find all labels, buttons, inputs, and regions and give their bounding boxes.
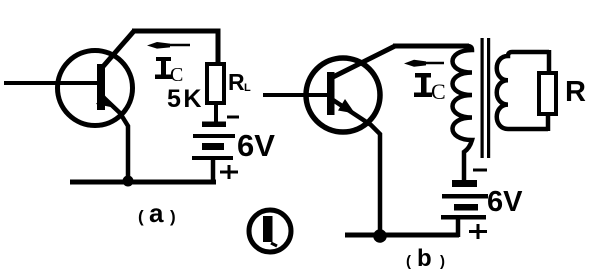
svg-text:(: ( bbox=[406, 253, 411, 270]
svg-text:R: R bbox=[228, 69, 245, 95]
wire bottom (b) bbox=[345, 233, 459, 238]
label IC (b) bbox=[421, 74, 427, 95]
resistor R (b) bbox=[539, 73, 556, 114]
wire base input (b) bbox=[263, 93, 330, 97]
junction dot (b) bbox=[373, 229, 387, 243]
wire resistor bottom (b) bbox=[546, 114, 551, 131]
transistor Q1 collector lead bbox=[100, 31, 134, 70]
wire base input (a) bbox=[4, 81, 100, 85]
transistor Q1 emitter lead bbox=[102, 96, 128, 181]
svg-text:(: ( bbox=[138, 207, 144, 226]
svg-text:C: C bbox=[170, 64, 183, 86]
battery B1 plate long 1 bbox=[193, 134, 235, 138]
svg-text:): ) bbox=[440, 253, 445, 270]
transistor Q2 circle bbox=[306, 58, 380, 132]
battery B1 minus label bbox=[227, 116, 239, 119]
junction dot (a) bbox=[123, 176, 134, 187]
svg-text:R: R bbox=[565, 76, 586, 108]
arrow IC (a) bbox=[160, 44, 190, 47]
transistor Q2 emitter arrow bbox=[338, 99, 355, 114]
wire battery to bottom (b) bbox=[456, 219, 461, 237]
transistor Q2 base bar bbox=[327, 72, 335, 115]
battery B2 minus label bbox=[473, 169, 487, 172]
svg-text:L: L bbox=[244, 82, 251, 94]
arrow IC (b) bbox=[420, 62, 444, 65]
svg-text:a: a bbox=[149, 198, 164, 228]
transistor Q2 collector lead bbox=[331, 46, 395, 78]
svg-text:b: b bbox=[417, 245, 432, 272]
battery B2 plate long 1 bbox=[442, 194, 488, 199]
wire bottom (a) bbox=[70, 180, 216, 185]
transistor Q1 circle bbox=[58, 51, 133, 126]
battery B2 plate short 1 bbox=[452, 180, 477, 187]
battery B1 plus label bbox=[220, 171, 238, 174]
battery B2 plate short 2 bbox=[454, 204, 478, 211]
label IC (a) bbox=[161, 58, 166, 77]
svg-text:6V: 6V bbox=[487, 186, 523, 218]
transistor Q1 emitter arrow bbox=[96, 94, 113, 108]
transistor Q1 base bar bbox=[97, 64, 105, 110]
svg-text:C: C bbox=[431, 79, 446, 104]
resistor RL (a) bbox=[207, 64, 224, 103]
svg-text:6V: 6V bbox=[237, 128, 275, 163]
transformer secondary coil bbox=[497, 52, 549, 129]
wire secondary to resistor top bbox=[547, 50, 552, 73]
wire top (a) bbox=[132, 31, 218, 64]
battery B1 plate short 1 bbox=[202, 122, 226, 128]
transistor Q2 emitter lead bbox=[333, 100, 380, 236]
battery B2 plate long 2 bbox=[441, 215, 486, 220]
figure number circled 1 bbox=[249, 210, 291, 252]
svg-text:): ) bbox=[170, 207, 176, 226]
battery B1 plate short 2 bbox=[202, 143, 224, 150]
transformer core bbox=[481, 38, 484, 158]
battery B2 plus label bbox=[469, 230, 487, 233]
wire battery to bottom (a) bbox=[211, 160, 216, 182]
wire resistor to battery (a) bbox=[214, 103, 218, 122]
battery B1 plate long 2 bbox=[192, 156, 233, 160]
wire top (b) bbox=[393, 44, 469, 49]
transformer primary coil bbox=[453, 46, 473, 180]
svg-text:5K: 5K bbox=[167, 85, 204, 113]
